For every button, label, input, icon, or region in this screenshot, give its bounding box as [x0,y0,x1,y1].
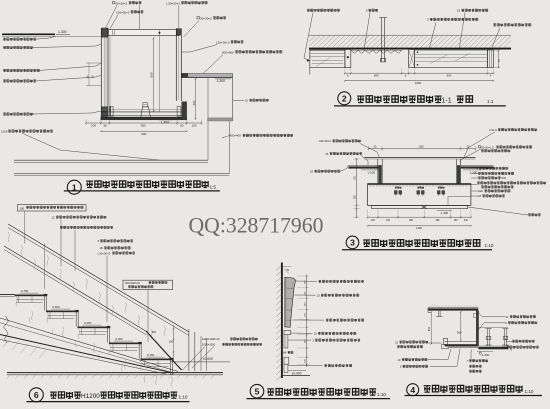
title underline 5 [247,398,391,400]
svg-text:QQ:328717960: QQ:328717960 [189,214,324,238]
d1 label neutral glue strip [3,69,6,71]
d1 lower long ceiling line B [14,173,229,175]
svg-text:4.5mm: 4.5mm [489,128,498,132]
svg-text:1:10: 1:10 [179,395,188,400]
svg-text:0.450: 0.450 [84,321,92,325]
svg-text:2: 2 [342,93,347,103]
d3 label steel frame two lines [477,182,480,184]
title text detail 3 [363,240,370,246]
svg-text:12: 12 [51,215,55,219]
d1 lower long ceiling line A [14,159,208,161]
svg-text:550: 550 [141,124,146,128]
svg-text:L30×30×3: L30×30×3 [216,40,230,44]
svg-text:4: 4 [410,385,415,395]
svg-text:1:5: 1:5 [210,184,217,189]
d4 cove end bracket [443,338,447,344]
svg-text:L30×30×3: L30×30×3 [167,1,181,5]
svg-text:15: 15 [457,9,461,13]
title circled 2 [338,92,351,105]
d1 left vertical steel member [100,28,102,119]
d2 left end edge [309,48,311,75]
svg-text:30×30×2: 30×30×2 [200,16,212,20]
d1 small left dim 50 marks [88,63,90,87]
svg-text:0.300: 0.300 [116,337,124,341]
d3 left vertical dim [356,158,358,218]
d3 label white soft film [528,214,531,216]
d3 top dim row [369,148,476,150]
d6 glass end cut diagonal [146,331,182,370]
d6 stair slab diagonal pair upper [0,318,178,372]
d4 hanger clips on lower ceiling [487,329,489,347]
d1 dimension row 600 [101,130,187,132]
d1 top horizontal steel tube [108,29,179,35]
d5 label skirting same as floor [324,365,327,367]
svg-text:1.300: 1.300 [217,79,225,83]
d5 vertical dim line [306,275,308,367]
d3 left box wall [377,159,379,184]
d1 right ceiling band 600x600 panel [182,72,233,74]
d3 label support 600 [478,177,481,179]
svg-text:300: 300 [152,330,157,334]
d2 dim row 2 total [345,80,494,82]
d3 top plate [365,156,476,158]
d6 boxed label stair nosing 100 [18,205,87,211]
d2 right support block hatched [409,49,415,67]
svg-text:0.600: 0.600 [53,305,61,309]
svg-text:100: 100 [464,219,469,222]
svg-text:50: 50 [104,124,108,128]
svg-text:100: 100 [91,124,96,128]
d3 bottom diffuser lip [372,205,468,208]
svg-text:1:10: 1:10 [485,243,494,248]
svg-text:100: 100 [169,339,174,343]
svg-text:70: 70 [497,59,501,63]
d2 right dim 70 [497,50,499,68]
svg-text:100: 100 [20,207,25,211]
d1 center lamp cup [141,107,151,117]
svg-text:600: 600 [447,74,452,78]
svg-text:1.100: 1.100 [470,170,478,174]
d1 hanger rod in box [159,30,161,111]
svg-text:150: 150 [386,219,391,222]
d6 label stainless handrail [60,226,63,228]
svg-text:1:1: 1:1 [487,99,494,104]
d1 label 4mm beige panel 3 [3,113,6,115]
svg-text:6: 6 [34,390,39,400]
svg-text:18: 18 [310,170,313,174]
d6 stair slab diagonal pair lower [0,335,174,374]
d4 hanger under plate [438,311,440,317]
svg-text:15: 15 [395,340,398,344]
svg-text:1.400: 1.400 [482,353,490,357]
d6 step 3 tread 0.450 [78,327,110,329]
svg-text:18: 18 [478,194,481,198]
svg-text:10: 10 [398,358,401,362]
svg-text:1.300: 1.300 [58,30,67,34]
d1 top-left ceiling slab line 1.300 [2,33,55,35]
svg-text:15: 15 [317,294,320,298]
title circled 1 [67,180,81,194]
d6 break line left edge [4,316,9,343]
d1 right vertical steel member [175,28,177,101]
d5 headboard panel [285,277,296,327]
svg-text:300×300×10: 300×300×10 [125,281,141,285]
svg-text:600: 600 [141,132,146,136]
title underline 1 [64,190,220,192]
svg-text:LED: LED [478,189,483,193]
d1 dimension row 100/50/550/50/100 [86,122,202,124]
d5 skirting block [284,357,289,364]
svg-text:1400: 1400 [416,226,422,230]
d5 lower bracket [284,330,291,334]
d4 label keel frame right [512,340,515,342]
d2 wall diagonal hatch [303,35,516,47]
d6 step 2 riser [75,312,77,326]
d3 bottom dim row 2 [368,225,471,227]
d3 lamp box body [368,184,471,206]
title underline 6 [27,401,190,403]
d6 end dim 300/100 [173,325,175,362]
d3 left ceiling wing [349,164,382,166]
d6 ground slab line [7,372,223,374]
svg-text:M6: M6 [283,351,287,355]
d1 right grey plaster band [208,118,233,121]
d6 marble veins under steps [16,296,172,395]
svg-text:1200: 1200 [1,129,8,133]
d6 step 5 tread 0.150 [141,359,173,361]
svg-text:15: 15 [314,332,317,336]
d2 right long panel [415,50,488,68]
d4 lower ceiling band [478,345,508,347]
d6 railing end posts [188,329,190,371]
svg-text:600: 600 [374,74,379,78]
svg-text:15: 15 [502,345,505,349]
d6 step 4 tread 0.300 [109,343,141,345]
svg-text:1.100: 1.100 [367,170,375,174]
svg-text:18: 18 [100,246,104,250]
d2 mirror zigzag [351,50,402,53]
title circled 3 [346,236,359,249]
d1 vertical dim 300 under right ceiling [195,78,197,119]
d1 bottom channel of ceiling recess [101,111,187,113]
d6 step 4 riser [138,344,140,358]
d5 wall vertical line [281,263,283,379]
d5 label solid wood keel [326,319,329,321]
d1 label 5mm frosted glass film [3,80,6,82]
d5 lower strip [284,335,288,348]
svg-text:1.400: 1.400 [440,211,448,215]
title underline 3 [342,249,492,251]
d6 slab hatch [3,338,46,359]
svg-text:380: 380 [436,219,441,222]
title underline 4 [405,395,543,397]
svg-text:600×600: 600×600 [222,50,234,54]
svg-text:300: 300 [457,331,462,335]
svg-text:3: 3 [350,237,355,247]
svg-text:150: 150 [454,219,459,222]
svg-text:100: 100 [191,124,196,128]
svg-text:300: 300 [192,100,196,105]
d3 right ceiling wing [461,164,494,166]
svg-text:1660: 1660 [415,81,422,85]
d6 glass panel diagonal pair [4,246,148,332]
d2 label solid wood edge right [493,24,496,26]
title circled 6 [29,388,43,402]
svg-text:15: 15 [325,152,328,156]
title text detail 2 [357,96,364,102]
d1 label 4mm beige panel top [3,38,6,40]
d4 right vertical member [475,311,477,346]
title text detail 1 [86,181,93,187]
svg-text:L30×30×3: L30×30×3 [98,251,111,255]
d6 upper landing edge [0,294,15,296]
svg-text:1-1: 1-1 [442,98,452,105]
svg-text:12: 12 [506,315,509,319]
svg-text:1000×1000×10: 1000×1000×10 [202,337,220,341]
d6 step 1 riser [44,296,46,310]
d3 label base layer right [478,172,481,174]
svg-text:0.150: 0.150 [147,353,155,357]
svg-text:H1200: H1200 [81,393,100,400]
d2 left support block [345,49,351,67]
svg-text:±0.000: ±0.000 [292,371,302,375]
d2 left wood panel [310,50,345,68]
svg-text:0.750: 0.750 [21,289,29,293]
title underline 2 [334,105,506,107]
title circled 5 [250,384,264,398]
d6 step 3 riser [107,328,109,342]
svg-text:1000×1000: 1000×1000 [202,343,216,347]
d6 step 1 tread 0.750 [15,295,47,297]
d1 right channel upstand angle [177,107,181,117]
d2 wall bottom thick line [309,48,511,50]
d4 cove lines [445,340,477,342]
svg-text:50: 50 [180,124,184,128]
title circled 4 [407,384,419,396]
svg-text:500: 500 [150,72,154,77]
d2 label solid wood edge left [307,9,310,11]
svg-text:380: 380 [409,219,414,222]
d6 step 2 tread 0.600 [46,311,78,313]
d4 top plate hatch ticks [429,305,478,307]
d1 left channel upstand angle [109,107,113,117]
svg-text:±0.000: ±0.000 [203,357,213,361]
d4 top plate [428,307,478,309]
svg-text:30×30×2: 30×30×2 [116,1,128,5]
title text detail 5 [267,389,274,395]
d2 right end cap [487,50,493,68]
svg-text:70: 70 [286,268,289,272]
title text detail 4 [424,386,431,392]
svg-text:600: 600 [502,176,507,180]
d6 glass texture veins [8,232,165,339]
d2 wall top line [309,34,511,36]
svg-text:1:10: 1:10 [377,392,386,397]
d5 top dim 70 [283,266,292,268]
svg-text:30×30×1.5: 30×30×1.5 [481,145,494,149]
svg-text:5: 5 [255,386,260,396]
d5 label headboard soft pad [319,280,322,282]
svg-text:1:10: 1:10 [525,389,534,394]
d1 inner vertical dim 500 [153,38,155,112]
svg-text:1.400: 1.400 [161,120,169,124]
svg-text:800: 800 [428,326,431,331]
d3 lamp pairs [395,187,397,189]
d6 handrail top diagonal pair [8,224,189,332]
d2 dim row 1 [345,72,494,74]
d1 label 4mm beige panel 2 [3,46,6,48]
title text detail 6 [50,392,57,398]
svg-text:800×400: 800×400 [230,134,242,138]
d3 center X mark [422,206,427,209]
d5 wall hatch ticks [276,265,281,381]
d3 right box wall [455,159,457,184]
svg-text:L30×30×3: L30×30×3 [116,10,130,14]
svg-text:10: 10 [245,99,248,103]
svg-text:100: 100 [371,219,376,222]
svg-text:L30×30×3: L30×30×3 [319,139,332,143]
svg-text:1100: 1100 [418,146,424,149]
d4 left dim vertical [430,312,432,345]
d6 step 5 riser [170,360,172,374]
d4 dim 300 vertical [460,312,462,341]
d6 boxed label 300x300x10 tile [123,280,173,289]
d3 bottom dim row 1 [368,216,471,218]
d2 mirror hanger rod [381,18,383,62]
